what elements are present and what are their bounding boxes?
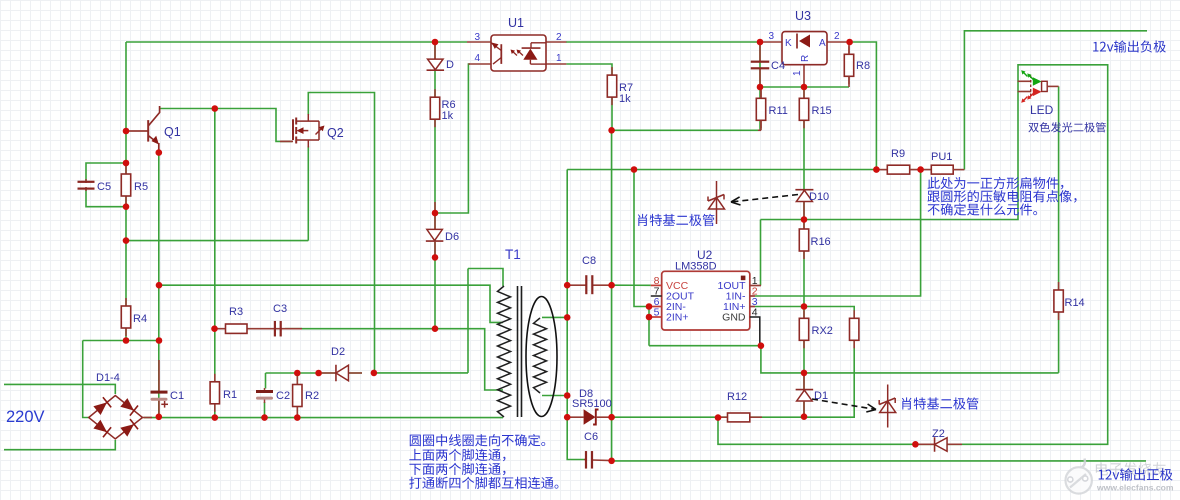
svg-text:1k: 1k [442, 110, 454, 122]
svg-text:Q2: Q2 [327, 126, 344, 140]
svg-text:C1: C1 [170, 390, 184, 402]
svg-text:D: D [446, 59, 454, 71]
svg-text:GND: GND [722, 312, 746, 324]
svg-text:D6: D6 [445, 231, 459, 243]
svg-text:2IN+: 2IN+ [666, 312, 688, 324]
svg-text:U3: U3 [795, 9, 811, 23]
svg-text:2: 2 [834, 31, 840, 42]
svg-text:R1: R1 [223, 389, 237, 401]
svg-text:SR5100: SR5100 [572, 398, 612, 410]
svg-text:T1: T1 [505, 247, 521, 262]
svg-text:R2: R2 [305, 390, 319, 402]
svg-text:C3: C3 [273, 303, 287, 315]
svg-text:R14: R14 [1065, 297, 1085, 309]
svg-text:R11: R11 [769, 105, 788, 117]
svg-text:C4: C4 [771, 60, 785, 72]
svg-text:R5: R5 [134, 181, 148, 193]
svg-text:Z2: Z2 [932, 428, 945, 440]
svg-text:K: K [785, 38, 792, 49]
svg-text:LM358D: LM358D [675, 261, 717, 273]
svg-text:D1-4: D1-4 [96, 372, 120, 384]
svg-text:D10: D10 [809, 191, 829, 203]
svg-text:4: 4 [752, 307, 758, 319]
svg-text:C5: C5 [97, 181, 111, 193]
svg-text:U1: U1 [508, 16, 524, 30]
svg-text:R4: R4 [133, 313, 147, 325]
svg-text:Q1: Q1 [164, 125, 181, 139]
svg-text:C6: C6 [584, 431, 598, 443]
svg-text:LED: LED [1030, 103, 1054, 117]
svg-text:2: 2 [556, 32, 562, 43]
svg-text:R3: R3 [229, 306, 243, 318]
svg-text:1: 1 [792, 70, 803, 76]
svg-text:C2: C2 [276, 390, 290, 402]
svg-text:C8: C8 [582, 255, 596, 267]
svg-text:R15: R15 [812, 105, 832, 117]
svg-text:1: 1 [556, 53, 562, 64]
svg-text:R16: R16 [811, 236, 831, 248]
svg-text:RX2: RX2 [812, 325, 833, 337]
svg-text:D2: D2 [331, 346, 345, 358]
svg-text:R: R [800, 55, 811, 62]
svg-text:A: A [819, 38, 826, 49]
svg-text:1k: 1k [619, 93, 631, 105]
svg-text:4: 4 [474, 53, 480, 64]
svg-text:R9: R9 [891, 148, 905, 160]
svg-text:PU1: PU1 [931, 151, 952, 163]
svg-text:3: 3 [474, 32, 480, 43]
svg-text:220V: 220V [6, 408, 45, 426]
svg-text:R8: R8 [856, 60, 870, 72]
svg-text:www.elecfans.com: www.elecfans.com [1096, 483, 1174, 493]
svg-text:5: 5 [654, 307, 660, 319]
svg-text:R12: R12 [727, 391, 747, 403]
svg-text:3: 3 [768, 31, 774, 42]
